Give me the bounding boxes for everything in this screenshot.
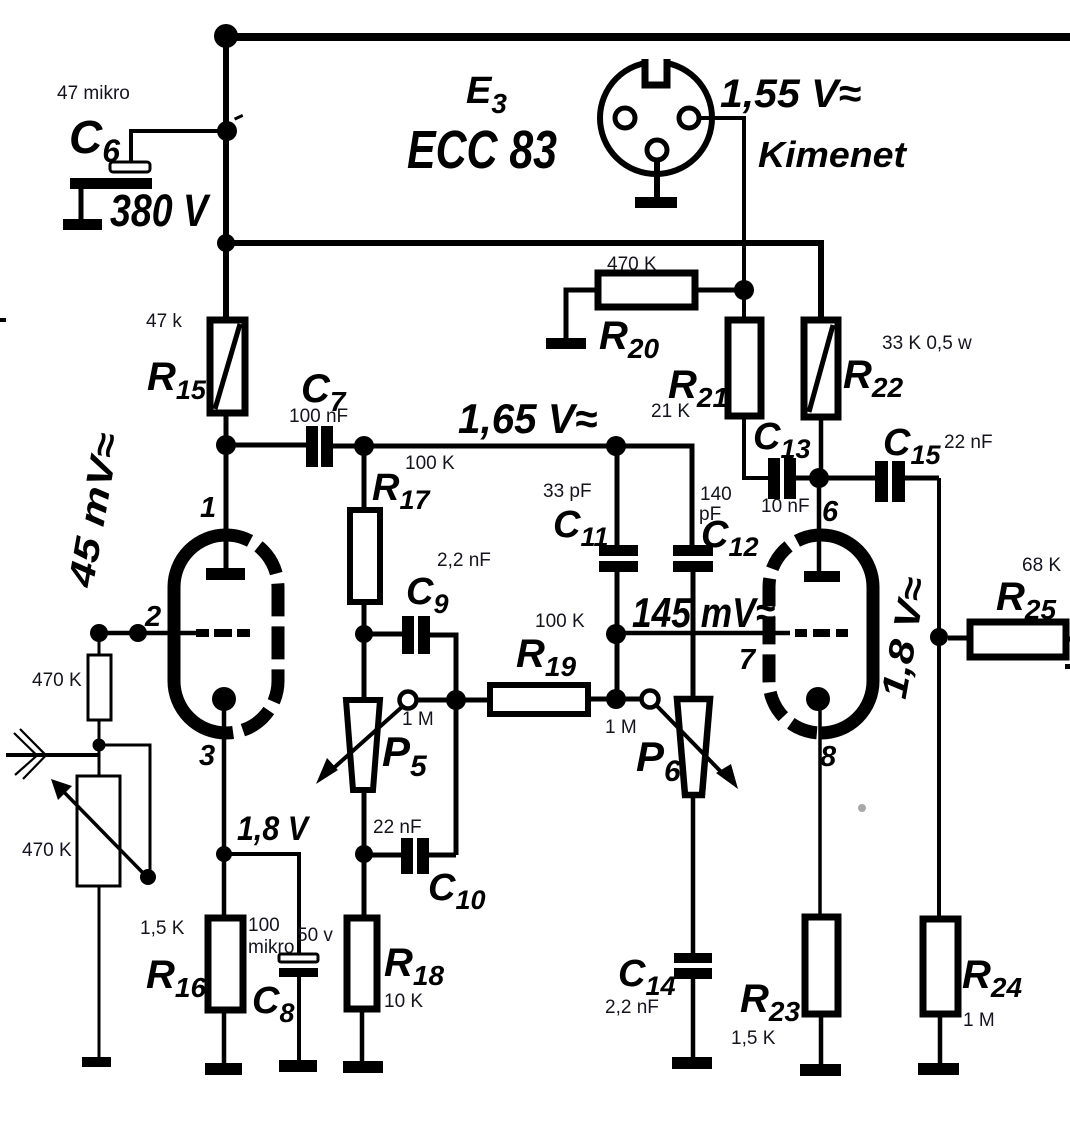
- junction R19 left: [446, 690, 466, 710]
- wire C9 right riser down to C10: [430, 635, 456, 855]
- wire C11 top lead from 1,65V node: [615, 446, 620, 545]
- svg-text:mikro: mikro: [248, 937, 294, 958]
- input chevron inner: [20, 729, 46, 779]
- tube V1 envelope: [174, 535, 278, 733]
- resistor R22: [804, 320, 838, 417]
- stray tick left edge: [0, 318, 6, 322]
- svg-text:145 mV≈: 145 mV≈: [632, 589, 775, 636]
- DIN pin right: [679, 108, 699, 128]
- resistor R20: [598, 273, 695, 307]
- svg-text:1,8 V: 1,8 V: [237, 810, 311, 848]
- wire R25 left lead: [948, 636, 970, 641]
- resistor R18: [347, 918, 377, 1009]
- P5 wiper arrow: [327, 706, 403, 774]
- svg-text:68 K: 68 K: [1022, 555, 1061, 576]
- svg-text:3: 3: [199, 740, 215, 772]
- capacitor C13: [768, 458, 780, 499]
- tube V2 anode bar: [804, 571, 840, 582]
- capacitor C8 plate top: [279, 954, 318, 962]
- wire C7 to 1,65V node: [333, 444, 616, 449]
- wire R18 to ground: [360, 1009, 365, 1062]
- svg-text:33 K 0,5 w: 33 K 0,5 w: [882, 333, 972, 354]
- junction R17 / C9 / P5: [355, 625, 373, 643]
- svg-text:R25: R25: [996, 575, 1056, 625]
- wire P6 bottom to C14: [691, 795, 696, 953]
- junction grid node tube V2: [606, 624, 626, 644]
- svg-text:1,65 V≈: 1,65 V≈: [458, 395, 597, 442]
- ground under C6: [63, 219, 102, 230]
- svg-text:Kimenet: Kimenet: [758, 134, 908, 175]
- wire R23 to ground: [819, 1014, 824, 1065]
- wire vertical supply x=226: [223, 36, 229, 320]
- svg-text:45 mV≈: 45 mV≈: [60, 430, 128, 591]
- ground under R18: [343, 1061, 383, 1073]
- svg-text:8: 8: [820, 741, 837, 773]
- wire cathode tube V2 to R23: [818, 708, 822, 917]
- capacitor C6 plate top: [110, 162, 150, 172]
- capacitor C11: [599, 545, 638, 556]
- P6 wiper terminal: [642, 691, 659, 708]
- svg-text:2: 2: [144, 601, 161, 633]
- resistor R25: [970, 622, 1066, 657]
- wire C7 left lead: [226, 443, 306, 448]
- svg-text:2,2 nF: 2,2 nF: [437, 550, 491, 571]
- junction pot wiper dot: [140, 869, 156, 885]
- wire C13 to pin 6 node: [796, 476, 875, 481]
- svg-text:1 M: 1 M: [963, 1010, 995, 1031]
- svg-text:C14: C14: [618, 953, 676, 1001]
- svg-text:1,5 K: 1,5 K: [731, 1028, 776, 1049]
- potentiometer P5 body: [346, 700, 380, 790]
- junction input grid left: [90, 624, 108, 642]
- resistor R16: [208, 918, 243, 1010]
- svg-text:21 K: 21 K: [651, 401, 690, 422]
- tube V2 cathode: [806, 687, 830, 711]
- tube V2 envelope: [769, 535, 873, 733]
- capacitor C9: [402, 616, 414, 654]
- R25 lower stub mark: [1065, 664, 1070, 669]
- svg-text:ECC 83: ECC 83: [407, 120, 557, 180]
- junction cathode V1 / C8: [216, 846, 232, 862]
- svg-text:140: 140: [700, 484, 732, 505]
- pot arrow: [60, 788, 144, 874]
- svg-text:E3: E3: [466, 70, 507, 119]
- svg-text:22 nF: 22 nF: [373, 817, 422, 838]
- svg-text:50 v: 50 v: [297, 925, 333, 946]
- DIN socket circle: [600, 62, 712, 174]
- svg-text:R23: R23: [740, 977, 800, 1027]
- wire C10 left lead: [364, 853, 401, 858]
- resistor R15: [210, 320, 245, 413]
- svg-text:1 M: 1 M: [605, 717, 637, 738]
- resistor R17: [350, 510, 380, 602]
- svg-text:P6: P6: [636, 733, 681, 788]
- svg-text:100 K: 100 K: [405, 453, 455, 474]
- wire grid of tube V2: [616, 631, 790, 636]
- svg-text:C10: C10: [428, 867, 486, 915]
- svg-text:C13: C13: [753, 416, 811, 464]
- svg-text:7: 7: [739, 644, 757, 676]
- P5 wiper terminal: [400, 692, 417, 709]
- stray tick above C6: [234, 114, 243, 121]
- wire pot bottom to ground: [98, 886, 101, 1059]
- svg-text:R22: R22: [843, 353, 903, 403]
- junction R20 / R21: [734, 280, 754, 300]
- ground under C8: [279, 1060, 317, 1072]
- junction V1 anode / C7: [216, 435, 236, 455]
- wire C8 to ground: [297, 977, 301, 1061]
- tube V1 grid dashes: [196, 629, 250, 637]
- svg-text:R20: R20: [599, 314, 659, 364]
- wire input horizontal: [6, 753, 99, 757]
- svg-text:P5: P5: [382, 728, 428, 783]
- ground under R24: [918, 1063, 959, 1075]
- svg-text:47 mikro: 47 mikro: [57, 83, 130, 104]
- wire branch to pot wiper: [99, 745, 150, 872]
- svg-text:C15: C15: [883, 422, 941, 470]
- wire input divider top: [98, 634, 101, 655]
- junction C6 tap: [217, 121, 237, 141]
- svg-text:1 M: 1 M: [402, 709, 434, 730]
- svg-text:R16: R16: [146, 953, 206, 1003]
- svg-text:R18: R18: [384, 941, 444, 991]
- wire R22 bottom lead: [819, 417, 824, 478]
- R15 diagonal: [215, 324, 240, 409]
- wire R19 right lead to P6 wiper: [588, 697, 642, 702]
- ground under R16: [205, 1063, 242, 1075]
- resistor R23: [805, 917, 838, 1014]
- svg-text:C11: C11: [553, 504, 608, 552]
- wire cathode tube V1 down to R16: [222, 708, 227, 918]
- resistor 470K upper (input divider): [88, 655, 111, 720]
- resistor R21: [728, 320, 761, 416]
- potentiometer 470K lower body: [77, 776, 120, 886]
- svg-text:1: 1: [200, 492, 216, 524]
- wire 470K to pot: [98, 720, 101, 776]
- capacitor C7: [306, 426, 318, 467]
- wire top B+ bus: [225, 33, 1070, 41]
- svg-text:100: 100: [248, 915, 280, 936]
- capacitor C15: [875, 461, 888, 502]
- wire C14 to ground: [691, 979, 696, 1058]
- svg-text:6: 6: [822, 496, 839, 528]
- wire DIN stem: [654, 160, 660, 198]
- DIN pin bottom: [647, 140, 667, 160]
- svg-text:pF: pF: [699, 504, 721, 525]
- wire C11 bottom to grid node: [615, 572, 620, 699]
- svg-text:1,55 V≈: 1,55 V≈: [720, 72, 861, 116]
- wire P5 bottom to R18: [362, 790, 367, 918]
- wire R24 to ground: [938, 1014, 943, 1064]
- wire C10 right lead: [429, 853, 456, 858]
- junction C7 / R17: [354, 436, 374, 456]
- resistor R19: [490, 685, 588, 714]
- wire R16 to ground: [222, 1010, 227, 1065]
- wire R17 bottom to P5 top: [362, 602, 367, 700]
- wire R15 bottom to tube V1 anode: [224, 413, 229, 568]
- junction divider mid: [93, 739, 106, 752]
- junction second bus: [217, 234, 235, 252]
- svg-text:470 K: 470 K: [32, 670, 82, 691]
- junction 1,65V node / C11: [606, 436, 626, 456]
- svg-text:10 K: 10 K: [384, 991, 423, 1012]
- speck near tube V2: [858, 804, 866, 812]
- wire R19 left lead: [456, 698, 490, 703]
- wire C9 left lead: [364, 632, 402, 637]
- wire C15 right lead down to R24: [905, 476, 939, 481]
- capacitor C14: [674, 953, 712, 963]
- svg-text:380 V: 380 V: [110, 185, 211, 236]
- svg-text:C9: C9: [406, 571, 448, 619]
- wire P5 wiper to R19 node: [416, 698, 456, 703]
- DIN pin left: [615, 108, 635, 128]
- junction R19 right: [606, 689, 626, 709]
- svg-text:R17: R17: [372, 467, 431, 515]
- svg-text:470 K: 470 K: [607, 254, 657, 275]
- capacitor C10: [401, 838, 413, 874]
- svg-text:C6: C6: [69, 111, 120, 169]
- input chevron outer: [14, 733, 37, 775]
- DIN notch: [645, 59, 667, 85]
- ground under DIN: [635, 197, 677, 208]
- ground under R23: [800, 1064, 841, 1076]
- wire C6 branch: [131, 131, 227, 163]
- svg-text:33 pF: 33 pF: [543, 481, 592, 502]
- svg-text:100 K: 100 K: [535, 611, 585, 632]
- wire C8 branch: [224, 854, 299, 954]
- ground under C14: [672, 1057, 712, 1069]
- P6 wiper arrow: [656, 705, 728, 779]
- wire anode lead tube V2: [817, 478, 822, 572]
- junction top bus: [214, 24, 238, 48]
- wire R20 left lead to ground: [566, 290, 598, 339]
- wire R25 right stub: [1066, 637, 1070, 642]
- svg-text:R19: R19: [516, 632, 576, 682]
- svg-text:470 K: 470 K: [22, 840, 72, 861]
- svg-text:2,2 nF: 2,2 nF: [605, 997, 659, 1018]
- svg-text:1,5 K: 1,5 K: [140, 918, 185, 939]
- ground left of R20: [546, 338, 586, 349]
- wire DIN output down to R20/R21 node: [699, 118, 744, 320]
- tube V1 anode bar: [206, 568, 245, 580]
- resistor R24: [923, 919, 958, 1014]
- capacitor C6 plate bottom: [70, 178, 152, 189]
- wire R21 bottom to C13: [744, 416, 768, 478]
- svg-text:100 nF: 100 nF: [289, 406, 348, 427]
- svg-text:R24: R24: [962, 953, 1022, 1003]
- wire C12 bottom to P6 top: [691, 572, 696, 699]
- wire C6 to ground: [79, 188, 84, 221]
- svg-text:C8: C8: [252, 980, 294, 1028]
- wire C12 top lead: [616, 446, 692, 545]
- svg-text:22 nF: 22 nF: [944, 432, 993, 453]
- tube V1 cathode: [212, 687, 236, 711]
- capacitor C12: [673, 545, 713, 556]
- potentiometer P6 body: [677, 699, 710, 795]
- junction R25 node: [930, 628, 948, 646]
- wire grid tube V1 from input node: [99, 631, 196, 636]
- ground under input pot: [82, 1057, 111, 1067]
- junction input grid right: [129, 624, 147, 642]
- junction C10 left: [355, 845, 373, 863]
- tube V2 grid dashes: [795, 629, 848, 637]
- R22 diagonal: [809, 325, 833, 412]
- svg-text:10 nF: 10 nF: [761, 496, 810, 517]
- wire second bus to R22: [226, 243, 821, 320]
- svg-text:1,8 V≈: 1,8 V≈: [873, 574, 935, 702]
- svg-text:47 k: 47 k: [146, 311, 182, 332]
- capacitor C8 plate bottom: [279, 968, 318, 977]
- svg-text:R15: R15: [147, 355, 207, 405]
- wire R17 top lead: [362, 446, 367, 510]
- wire R20 right lead: [695, 288, 744, 293]
- junction pin 6 node: [809, 468, 829, 488]
